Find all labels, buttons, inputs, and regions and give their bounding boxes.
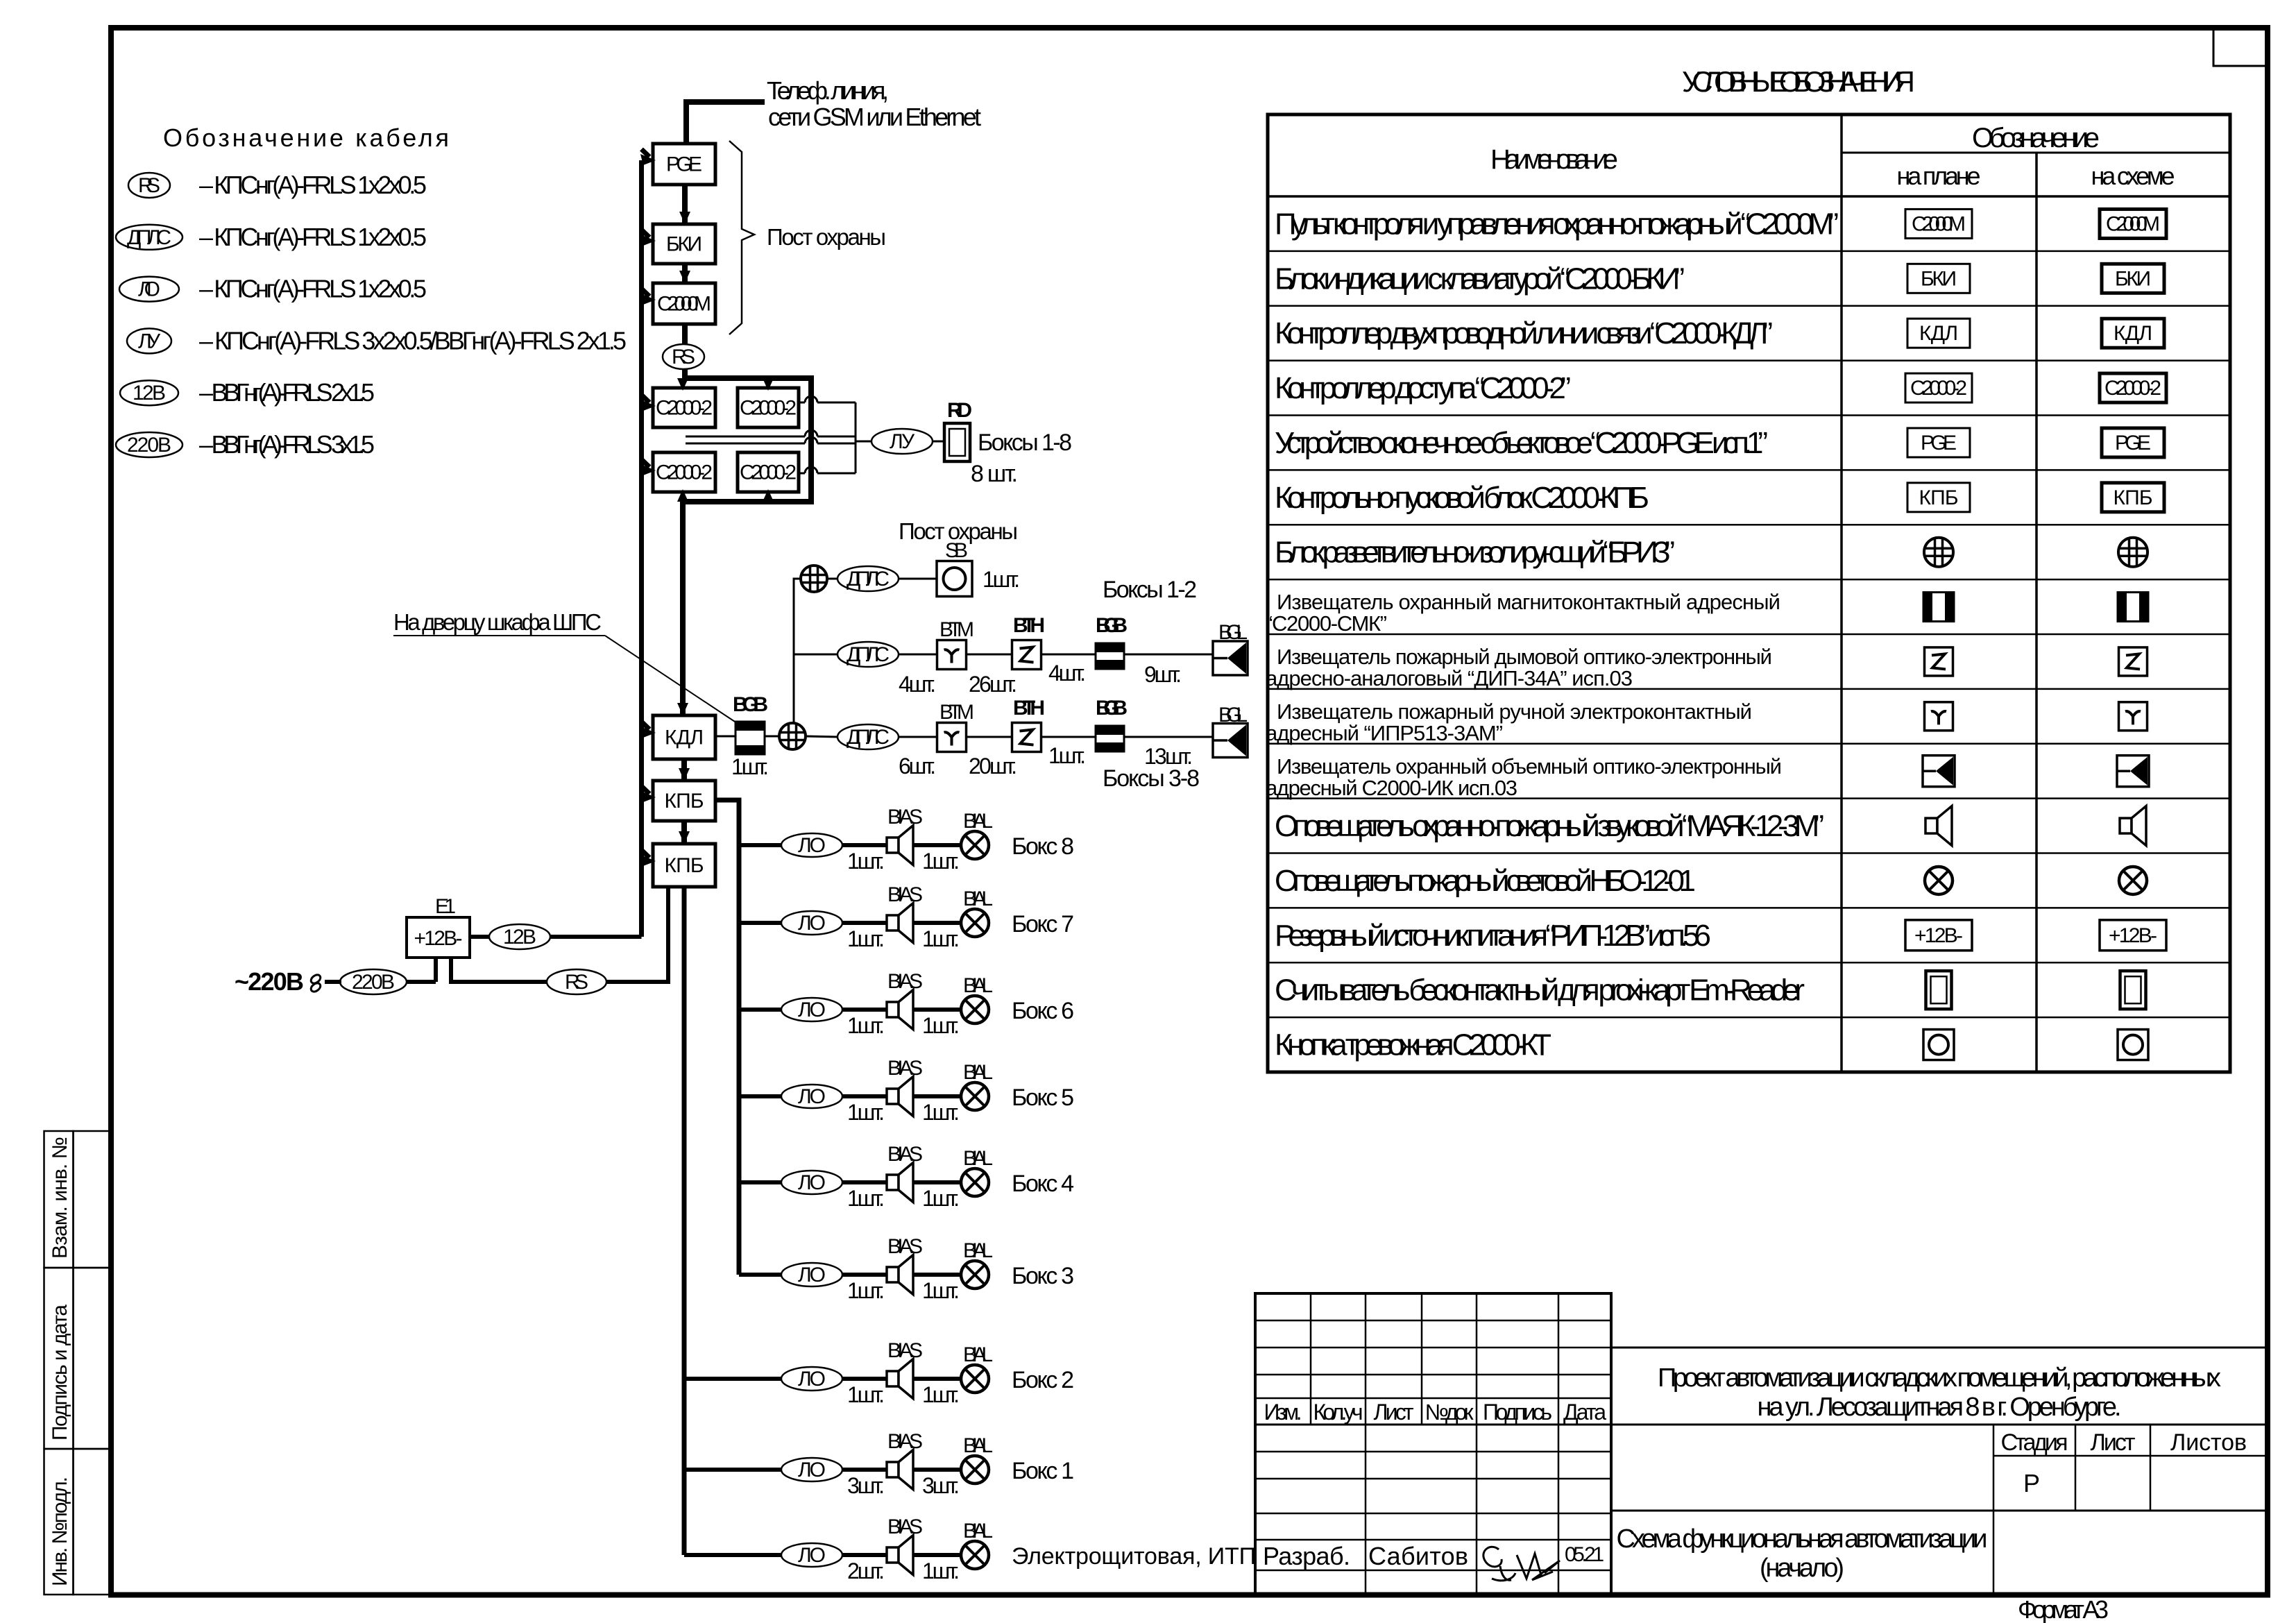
- legend table grid: [1268, 114, 2230, 1072]
- svg-text:С2000М: С2000М: [1912, 212, 1966, 235]
- svg-text:Наименование: Наименование: [1490, 144, 1618, 175]
- legend row 3 symbol on scheme: [2102, 318, 2164, 348]
- svg-text:Бокс 5: Бокс 5: [1012, 1085, 1074, 1111]
- wire КДЛ-КПБ1: [681, 759, 687, 781]
- oval ДПЛС 2: [837, 642, 899, 667]
- svg-text:Извещатель охранный магнитокон: Извещатель охранный магнитоконтактный ад…: [1277, 590, 1780, 614]
- arrow bus into С2000-2 #4 bottom: [765, 497, 771, 502]
- wire BIAS-BIAL Бокс 5: [913, 1094, 961, 1098]
- cable legend item ЛУ: [127, 328, 171, 353]
- svg-text:– КПСнг(А)-FRLS 1х2х0.5: – КПСнг(А)-FRLS 1х2х0.5: [199, 223, 427, 251]
- motion BGL 2: [1213, 724, 1248, 758]
- block С2000-2 #1: [653, 388, 715, 427]
- svg-text:~220В: ~220В: [235, 967, 304, 996]
- svg-text:BIAL: BIAL: [963, 1520, 993, 1543]
- oval ЛО Бокс 7: [781, 911, 842, 935]
- arrow bus into С2000-2 #1 top: [680, 378, 686, 383]
- legend row 7 symbol on scheme: [2118, 538, 2148, 567]
- legend row 16 symbol on plan: [1923, 1030, 1954, 1060]
- wire 12V power trunk: [639, 160, 644, 937]
- svg-text:BGB: BGB: [1096, 697, 1128, 720]
- svg-text:На дверцу шкафа ШПС: На дверцу шкафа ШПС: [393, 609, 602, 635]
- svg-text:BGL: BGL: [1218, 704, 1248, 726]
- svg-text:1шт.: 1шт.: [922, 849, 960, 874]
- svg-text:Резервный источник питания “РИ: Резервный источник питания “РИП-12В” исп…: [1275, 919, 1711, 953]
- title block grid: [1255, 1293, 1611, 1595]
- svg-text:Обозначение: Обозначение: [1972, 123, 2100, 153]
- svg-text:ДПЛС: ДПЛС: [847, 568, 890, 590]
- svg-text:1шт.: 1шт.: [922, 1278, 960, 1303]
- arrow bus into С2000-2 #2 top: [765, 378, 771, 383]
- svg-text:BIAL: BIAL: [963, 1239, 993, 1262]
- svg-text:Изм.: Изм.: [1264, 1400, 1302, 1425]
- svg-text:КПБ: КПБ: [665, 790, 704, 813]
- sounder BIAS Бокс 5: [887, 1089, 899, 1104]
- detector BGB 2: [1096, 726, 1124, 751]
- legend row 10 symbol on plan: [1925, 702, 1953, 731]
- wire КПБ2 output bus: [682, 887, 687, 1555]
- wire branch Бокс 8: [739, 843, 781, 847]
- wire ЛО-BIAS Бокс 5: [842, 1094, 887, 1098]
- wire BTH-BGB 2: [1041, 736, 1096, 738]
- svg-text:BIAS: BIAS: [887, 1339, 923, 1362]
- legend row 5 symbol on scheme: [2102, 428, 2164, 457]
- svg-text:Бокс 4: Бокс 4: [1012, 1171, 1074, 1197]
- svg-text:Контрольно-пусковой блок С2000: Контрольно-пусковой блок С2000-КПБ: [1275, 481, 1649, 515]
- svg-text:1шт.: 1шт.: [847, 1278, 885, 1303]
- svg-text:на ул. Лесозащитная 8 в г. Оре: на ул. Лесозащитная 8 в г. Оренбурге.: [1758, 1393, 2122, 1422]
- legend row 1 symbol on scheme: [2100, 209, 2166, 238]
- svg-text:ЛО: ЛО: [798, 912, 826, 935]
- oval ЛО Бокс 3: [781, 1263, 842, 1286]
- arrow 12V into КДЛ: [642, 722, 650, 729]
- oval 220В: [340, 969, 407, 994]
- svg-text:ЛУ: ЛУ: [890, 430, 915, 453]
- lamp BIAL Бокс 8: [961, 831, 989, 859]
- block КПБ #2: [653, 844, 715, 887]
- wire ДПЛС-BTM 1: [899, 654, 937, 656]
- svg-text:BTM: BTM: [939, 701, 974, 724]
- oval ЛО Бокс 2: [781, 1367, 842, 1391]
- svg-text:26шт.: 26шт.: [969, 672, 1017, 697]
- svg-text:– КПСнг(А)-FRLS 3х2х0.5/ВВГнг(: – КПСнг(А)-FRLS 3х2х0.5/ВВГнг(А)-FRLS 2х…: [199, 326, 627, 355]
- svg-text:– ВВГнг(А)-FRLS 3х1.5: – ВВГнг(А)-FRLS 3х1.5: [199, 430, 375, 459]
- svg-text:3шт.: 3шт.: [847, 1473, 885, 1498]
- lamp BIAL Бокс 3: [961, 1261, 989, 1289]
- svg-text:BIAS: BIAS: [887, 806, 923, 829]
- svg-text:BGB: BGB: [733, 693, 768, 716]
- wire BIAS-BIAL Бокс 8: [913, 843, 961, 847]
- cable legend item ДПЛС: [116, 225, 182, 250]
- svg-text:С2000-2: С2000-2: [656, 461, 713, 484]
- svg-text:SB: SB: [945, 539, 968, 562]
- svg-text:БКИ: БКИ: [2115, 267, 2151, 290]
- legend row 11 symbol on plan: [1923, 756, 1955, 787]
- block С2000М: [653, 283, 715, 324]
- oval RS lower: [547, 969, 606, 994]
- wire BTM-BTH 2: [967, 736, 1012, 738]
- wire branch Бокс 2: [684, 1377, 781, 1381]
- svg-text:1шт.: 1шт.: [847, 926, 885, 951]
- svg-text:Листов: Листов: [2170, 1429, 2247, 1456]
- svg-text:Устройство оконечное объектово: Устройство оконечное объектовое “С2000-P…: [1275, 426, 1768, 460]
- legend row 12 symbol on scheme: [2120, 818, 2132, 833]
- svg-text:BIAL: BIAL: [963, 974, 993, 997]
- svg-text:BIAS: BIAS: [887, 1143, 923, 1166]
- cable legend item ЛО: [119, 277, 179, 302]
- wire ЛО-BIAS Бокс 7: [842, 921, 887, 925]
- wire ЛО-BIAS Бокс 2: [842, 1377, 887, 1381]
- legend row 6 symbol on scheme: [2102, 483, 2164, 512]
- lamp BIAL Бокс 4: [961, 1169, 989, 1196]
- svg-text:– ВВГнг(А)-FRLS 2х1.5: – ВВГнг(А)-FRLS 2х1.5: [199, 378, 375, 407]
- svg-text:Кол.уч: Кол.уч: [1313, 1400, 1363, 1425]
- svg-text:BIAS: BIAS: [887, 883, 923, 906]
- svg-text:1шт.: 1шт.: [1048, 743, 1086, 768]
- svg-text:Кнопка тревожная С2000-КТ: Кнопка тревожная С2000-КТ: [1275, 1028, 1551, 1062]
- svg-text:1шт.: 1шт.: [983, 567, 1020, 592]
- arrow 12V into PGE: [642, 149, 650, 157]
- wire RS to КПБ2: [606, 887, 668, 982]
- svg-text:1шт.: 1шт.: [922, 926, 960, 951]
- svg-text:С2000М: С2000М: [2106, 212, 2160, 235]
- arrow 12V into С2000М: [642, 289, 650, 296]
- svg-text:Проект автоматизации складских: Проект автоматизации складских помещений…: [1658, 1363, 2221, 1393]
- svg-text:Боксы 1-2: Боксы 1-2: [1103, 577, 1197, 603]
- legend row 13 symbol on scheme: [2119, 867, 2147, 894]
- block С2000-2 #2: [738, 388, 799, 427]
- wire branch Электрощитовая, ИТП: [684, 1553, 781, 1557]
- oval ЛУ: [871, 429, 933, 454]
- sidebar cell Инв. №подл.: [44, 1449, 74, 1595]
- svg-text:12В: 12В: [503, 926, 536, 949]
- svg-text:Лист: Лист: [1374, 1400, 1414, 1425]
- svg-text:ДПЛС: ДПЛС: [847, 643, 890, 666]
- wire С2000М to RS oval: [682, 324, 688, 345]
- svg-text:BIAL: BIAL: [963, 887, 993, 910]
- wire БРИЗ riser: [794, 579, 800, 723]
- svg-text:С2000-2: С2000-2: [1910, 377, 1967, 400]
- wire ДПЛС-BTM 2: [899, 736, 937, 738]
- svg-text:Бокс 1: Бокс 1: [1012, 1458, 1074, 1484]
- svg-text:1шт.: 1шт.: [922, 1100, 960, 1125]
- svg-text:3шт.: 3шт.: [922, 1473, 960, 1498]
- svg-text:Формат А3: Формат А3: [2018, 1595, 2109, 1623]
- svg-text:Телеф. линия,: Телеф. линия,: [767, 76, 889, 105]
- wire ЛО-BIAS Бокс 1: [842, 1468, 887, 1472]
- legend row 2 symbol on plan: [1907, 264, 1970, 293]
- legend row 8 symbol on scheme: [2118, 593, 2148, 622]
- wire branch Бокс 1: [684, 1468, 781, 1472]
- svg-text:ЛО: ЛО: [798, 1459, 826, 1481]
- svg-text:(начало): (начало): [1760, 1554, 1844, 1583]
- wire E1 to RS line: [451, 958, 547, 982]
- svg-text:PGE: PGE: [2115, 432, 2151, 454]
- wire RS chain БКИ-С2000М: [682, 264, 688, 283]
- svg-text:ЛО: ЛО: [798, 1171, 826, 1194]
- svg-text:“С2000-СМК”: “С2000-СМК”: [1266, 611, 1387, 636]
- svg-text:9шт.: 9шт.: [1144, 662, 1182, 687]
- svg-text:20шт.: 20шт.: [969, 754, 1017, 779]
- block С2000-2 #3: [653, 452, 715, 492]
- arrow bus into С2000-2 #3 bottom: [680, 497, 686, 502]
- wire branch Бокс 4: [739, 1180, 781, 1184]
- title cells Стадия Лист Листов: [1993, 1425, 1995, 1595]
- frame top-right cell: [2213, 28, 2268, 66]
- wire ЛО-BIAS Электрощитовая, ИТП: [842, 1553, 887, 1557]
- svg-text:BIAS: BIAS: [887, 1515, 923, 1538]
- title project name: [1611, 1347, 2268, 1349]
- svg-text:– КПСнг(А)-FRLS 1х2х0.5: – КПСнг(А)-FRLS 1х2х0.5: [199, 275, 427, 303]
- legend row 9 symbol on scheme: [2119, 647, 2148, 676]
- svg-text:БКИ: БКИ: [666, 233, 702, 256]
- svg-text:1шт.: 1шт.: [731, 754, 769, 779]
- wire 220V line: [325, 980, 341, 984]
- sounder BIAS Бокс 6: [887, 1002, 899, 1017]
- legend row 10 symbol on scheme: [2119, 702, 2148, 731]
- svg-text:+12В-: +12В-: [414, 927, 463, 950]
- legend row 3 symbol on plan: [1907, 318, 1970, 348]
- oval 12В: [489, 924, 550, 949]
- svg-text:ЛО: ЛО: [798, 1368, 826, 1391]
- svg-text:Подпись: Подпись: [1483, 1400, 1552, 1425]
- oval ЛО Электрощитовая, ИТП: [781, 1543, 842, 1567]
- wire КДЛ to BGB: [715, 736, 735, 738]
- svg-text:Извещатель охранный объемный о: Извещатель охранный объемный оптико-элек…: [1277, 754, 1782, 779]
- legend row 15 symbol on plan: [1926, 971, 1952, 1009]
- svg-text:BIAS: BIAS: [887, 1430, 923, 1453]
- lamp BIAL Бокс 1: [961, 1456, 989, 1484]
- svg-text:Обозначение кабеля: Обозначение кабеля: [163, 124, 449, 152]
- svg-text:Боксы 3-8: Боксы 3-8: [1103, 765, 1200, 792]
- cable legend item 12В: [120, 380, 178, 405]
- wire cluster to КДЛ: [680, 502, 686, 715]
- svg-text:BIAL: BIAL: [963, 810, 993, 833]
- wire branch Бокс 7: [739, 921, 781, 925]
- wire branch Бокс 6: [739, 1008, 781, 1012]
- svg-text:ЛО: ЛО: [798, 1544, 826, 1567]
- oval ДПЛС 3: [837, 724, 899, 749]
- arrow 12V into КПБ #1: [642, 786, 650, 794]
- arrow 12V into КПБ #2: [642, 850, 650, 858]
- svg-text:+12В-: +12В-: [2109, 924, 2157, 947]
- svg-text:ЛО: ЛО: [798, 1085, 826, 1108]
- sounder BIAS Бокс 1: [887, 1462, 899, 1477]
- lamp BIAL Бокс 6: [961, 996, 989, 1023]
- legend row 12 symbol on plan: [1925, 818, 1937, 833]
- reader RD: [944, 423, 970, 461]
- svg-text:КПБ: КПБ: [1919, 486, 1959, 509]
- sidebar cell Взам. инв. №: [44, 1131, 74, 1268]
- arrow 12V into С2000-2 #3: [642, 459, 650, 467]
- wire branch Бокс 5: [739, 1094, 781, 1098]
- sounder BIAS Бокс 8: [887, 838, 899, 853]
- wire КПБ1-КПБ2: [681, 821, 687, 844]
- button SB С2000-КТ: [937, 561, 972, 597]
- svg-text:на плане: на плане: [1897, 162, 1981, 190]
- svg-text:Стадия: Стадия: [2001, 1429, 2068, 1456]
- wire BTH-BGB 1: [1041, 654, 1096, 656]
- oval ЛО Бокс 1: [781, 1458, 842, 1481]
- wire 220В to E1: [407, 980, 436, 984]
- svg-text:ЛО: ЛО: [798, 999, 826, 1021]
- sounder BIAS Электрощитовая, ИТП: [887, 1547, 899, 1563]
- svg-text:ЛУ: ЛУ: [138, 330, 161, 352]
- wire ЛО-BIAS Бокс 8: [842, 843, 887, 847]
- wire 12В to trunk: [550, 935, 642, 939]
- sounder BIAS Бокс 7: [887, 915, 899, 931]
- legend row 14 symbol on scheme: [2100, 920, 2166, 951]
- svg-text:220В: 220В: [127, 434, 171, 457]
- svg-text:1шт.: 1шт.: [922, 1186, 960, 1211]
- lamp BIAL Бокс 5: [961, 1082, 989, 1110]
- svg-text:Бокс 3: Бокс 3: [1012, 1263, 1074, 1289]
- svg-text:05.21: 05.21: [1565, 1543, 1604, 1566]
- block КДЛ: [653, 715, 715, 759]
- svg-text:С2000-2: С2000-2: [740, 461, 797, 484]
- svg-text:на схеме: на схеме: [2091, 162, 2175, 190]
- oval RS: [663, 344, 704, 369]
- svg-text:ЛО: ЛО: [798, 1264, 826, 1286]
- svg-text:№док: №док: [1425, 1400, 1474, 1425]
- oval ЛО Бокс 4: [781, 1171, 842, 1194]
- callpoint BTM 2: [937, 723, 967, 752]
- wire ДПЛС to SB: [899, 578, 937, 580]
- svg-text:2шт.: 2шт.: [847, 1558, 885, 1583]
- wire ЛУ outputs: [799, 402, 805, 404]
- sounder BIAS Бокс 3: [887, 1267, 899, 1282]
- svg-text:RS: RS: [138, 174, 160, 197]
- svg-text:С2000-2: С2000-2: [740, 397, 797, 420]
- legend row 4 symbol on scheme: [2100, 373, 2166, 402]
- svg-text:BIAL: BIAL: [963, 1147, 993, 1170]
- svg-text:Оповещатель охранно-пожарный з: Оповещатель охранно-пожарный звуковой “М…: [1275, 809, 1824, 843]
- oval ЛО Бокс 8: [781, 833, 842, 857]
- svg-text:Считыватель бесконтактный для: Считыватель бесконтактный для proxi-карт…: [1275, 974, 1805, 1008]
- lamp BIAL Бокс 2: [961, 1365, 989, 1393]
- svg-text:1шт.: 1шт.: [922, 1013, 960, 1038]
- svg-text:Схема функциональная автоматиз: Схема функциональная автоматизации: [1617, 1524, 1988, 1554]
- block КПБ #1: [653, 781, 715, 821]
- svg-text:+12В-: +12В-: [1914, 924, 1963, 947]
- legend row 4 symbol on plan: [1905, 373, 1972, 402]
- sidebar cell Подпись и дата: [44, 1268, 74, 1449]
- cable legend item RS: [128, 173, 170, 198]
- svg-text:Лист: Лист: [2091, 1429, 2136, 1456]
- svg-text:6шт.: 6шт.: [899, 754, 936, 779]
- oval ДПЛС 1: [837, 566, 899, 591]
- svg-text:BIAL: BIAL: [963, 1434, 993, 1457]
- svg-text:Блок разветвительно-изолирующи: Блок разветвительно-изолирующий “БРИЗ”: [1275, 536, 1675, 570]
- power supply E1 РИП-12В: [407, 917, 470, 958]
- legend row 8 symbol on plan: [1923, 593, 1954, 622]
- svg-text:Бокс 7: Бокс 7: [1012, 911, 1074, 937]
- svg-text:1шт.: 1шт.: [847, 849, 885, 874]
- svg-text:Боксы 1-8: Боксы 1-8: [978, 430, 1072, 456]
- svg-text:КДЛ: КДЛ: [665, 726, 704, 749]
- splitter БРИЗ upper: [801, 566, 827, 592]
- svg-text:Р: Р: [2023, 1469, 2040, 1497]
- svg-text:Бокс 2: Бокс 2: [1012, 1367, 1074, 1393]
- cable legend item 220В: [116, 432, 182, 457]
- wire PGE to phone line: [686, 102, 765, 144]
- wire to ДПЛС SB: [828, 578, 837, 580]
- callpoint BTM 1: [937, 640, 967, 670]
- svg-text:сети GSM или Ethernet: сети GSM или Ethernet: [768, 103, 981, 131]
- svg-text:Пост охраны: Пост охраны: [767, 224, 886, 250]
- legend row 5 symbol on plan: [1907, 428, 1970, 457]
- svg-text:ЛО: ЛО: [798, 834, 826, 857]
- wire branch Боксы 1-2: [794, 654, 837, 656]
- svg-text:BTM: BTM: [939, 618, 974, 641]
- wire БРИЗ to ДПЛС 3: [806, 736, 837, 737]
- svg-text:BIAS: BIAS: [887, 1057, 923, 1080]
- wire BTM-BTH 1: [967, 654, 1012, 656]
- wire ЛО-BIAS Бокс 4: [842, 1180, 887, 1184]
- lamp BIAL Бокс 7: [961, 909, 989, 937]
- sounder BIAS Бокс 4: [887, 1175, 899, 1190]
- motion BGL 1: [1213, 641, 1248, 675]
- arrow 12V into С2000-2 #1: [642, 395, 650, 402]
- svg-text:1шт.: 1шт.: [922, 1382, 960, 1407]
- svg-text:Пульт контроля и управления ох: Пульт контроля и управления охранно-пожа…: [1275, 207, 1839, 241]
- svg-text:E1: E1: [435, 895, 456, 918]
- wire КПБ1 output bus: [715, 800, 739, 1275]
- svg-text:1шт.: 1шт.: [847, 1013, 885, 1038]
- block БКИ: [653, 224, 715, 264]
- wire RS chain PGE-БКИ: [682, 185, 688, 224]
- svg-text:С2000-2: С2000-2: [656, 397, 713, 420]
- svg-text:Бокс 6: Бокс 6: [1012, 998, 1074, 1024]
- svg-text:4шт.: 4шт.: [1048, 661, 1086, 686]
- svg-text:Инв. №подл.: Инв. №подл.: [49, 1477, 71, 1586]
- svg-text:BIAS: BIAS: [887, 1235, 923, 1258]
- wire BIAS-BIAL Бокс 3: [913, 1273, 961, 1277]
- wire cluster bus: [683, 378, 811, 502]
- svg-text:RD: RD: [947, 399, 972, 422]
- wire BIAS-BIAL Бокс 6: [913, 1008, 961, 1012]
- svg-text:адресно-аналоговый “ДИП-34А” и: адресно-аналоговый “ДИП-34А” исп.03: [1266, 666, 1633, 690]
- svg-text:Дата: Дата: [1563, 1400, 1606, 1425]
- block С2000-2 #4: [738, 452, 799, 492]
- svg-text:1шт.: 1шт.: [922, 1558, 960, 1583]
- svg-text:С2000М: С2000М: [657, 293, 711, 316]
- splitter БРИЗ lower: [779, 723, 806, 749]
- svg-text:КДЛ: КДЛ: [2114, 322, 2152, 345]
- svg-text:КДЛ: КДЛ: [1919, 322, 1958, 345]
- wire E1 12V line: [470, 935, 489, 939]
- svg-text:КПБ: КПБ: [665, 854, 704, 877]
- svg-text:ДПЛС: ДПЛС: [127, 226, 171, 249]
- legend row 1 symbol on plan: [1905, 209, 1972, 238]
- wire ЛУ to RD: [933, 441, 944, 443]
- wire branch Бокс 3: [739, 1273, 781, 1277]
- wire BIAS-BIAL Бокс 1: [913, 1468, 961, 1472]
- svg-text:Взам. инв. №: Взам. инв. №: [49, 1137, 71, 1259]
- svg-text:адресный С2000-ИК исп.03: адресный С2000-ИК исп.03: [1266, 776, 1517, 800]
- svg-text:220В: 220В: [352, 971, 395, 994]
- svg-text:Извещатель пожарный дымовой оп: Извещатель пожарный дымовой оптико-элект…: [1277, 645, 1772, 669]
- legend row 11 symbol on scheme: [2117, 756, 2149, 787]
- svg-text:КПБ: КПБ: [2114, 486, 2153, 509]
- svg-text:BTH: BTH: [1013, 697, 1045, 720]
- svg-text:Оповещатель пожарный световой: Оповещатель пожарный световой НБО-12-01: [1275, 864, 1696, 898]
- svg-text:BIAS: BIAS: [887, 970, 923, 993]
- legend row 16 symbol on scheme: [2118, 1030, 2148, 1060]
- arrow 12V into БКИ: [642, 230, 650, 237]
- signature: [1483, 1547, 1560, 1581]
- svg-text:1шт.: 1шт.: [847, 1100, 885, 1125]
